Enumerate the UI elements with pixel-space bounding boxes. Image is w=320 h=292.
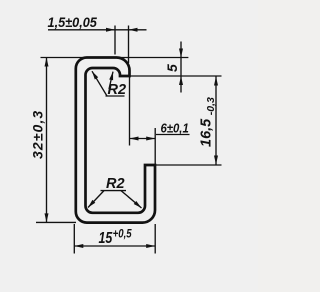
extension line: flange outer edge extended down (for 6) [129, 77, 131, 146]
extension line: bottom right (for 15) [154, 224, 156, 254]
dimension line 5 [180, 42, 182, 93]
arrow 15 right (pointing right) [146, 244, 155, 248]
profile outline (C-channel cross-section) [76, 58, 155, 223]
svg-text:6±0,1: 6±0,1 [161, 121, 190, 136]
arrow 16.5 top (pointing up) [214, 77, 218, 86]
dimension line 15 [74, 245, 155, 247]
leader R2 bottom right [121, 191, 142, 208]
underline for 6±0,1 [156, 134, 190, 136]
arrow R2 top-right leader [109, 72, 113, 81]
extension line: top surface extended (for 32 left and 5 right) [41, 57, 189, 59]
shelf R2 bottom [101, 190, 127, 192]
arrow 32 bottom (pointing down) [45, 213, 49, 222]
arrow 6 right (pointing right at x=155.2) [146, 137, 155, 141]
arrow 1.5 right (pointing left at x=128.5) [129, 28, 138, 32]
extension line: step face extended right (for 16.5) [145, 164, 222, 166]
svg-text:32±0,3: 32±0,3 [30, 110, 46, 159]
arrow R2 bottom-left leader [88, 200, 95, 208]
arrow 1.5 left (pointing right at x=115) [106, 28, 115, 32]
arrow R2 bottom-right leader [134, 201, 142, 208]
extension line: flange end face extended right (for 5 and 16.5) [120, 75, 222, 77]
arrowheads [45, 28, 219, 248]
extension line: step outer edge extended up (for 6) [154, 128, 156, 165]
extension line: thickness right (for 1.5) [128, 26, 130, 64]
svg-text:5: 5 [164, 64, 180, 72]
arrow R2 top-left leader [92, 71, 98, 79]
leader R2 top left [92, 71, 107, 96]
svg-text:1,5±0,05: 1,5±0,05 [48, 15, 98, 30]
extension line: bottom left (for 15) [73, 224, 75, 254]
leader R2 bottom left [88, 191, 104, 208]
extension line: thickness left (for 1.5) [114, 26, 116, 55]
arrow 15 left (pointing left) [74, 244, 83, 248]
arrow 16.5 bottom (pointing down) [214, 156, 218, 165]
dimension line 1.5 [48, 29, 147, 31]
arrow 32 top (pointing up) [45, 58, 49, 67]
arrow 6 left (pointing left at x=129.5) [130, 137, 139, 141]
arrow 5 top (pointing down at y=57.5) [179, 49, 183, 58]
dimension line 16.5 [215, 77, 217, 165]
arrow 5 bottom (pointing up at y=76.5) [179, 76, 183, 85]
svg-text:R2: R2 [106, 176, 125, 192]
shelf R2 top [106, 95, 125, 97]
dimension line 6 [130, 138, 156, 140]
extension line: bottom surface extended left (for 32) [36, 221, 76, 223]
dimension line 32 [46, 58, 48, 223]
svg-text:R2: R2 [108, 82, 127, 98]
leader R2 top right [109, 72, 113, 89]
